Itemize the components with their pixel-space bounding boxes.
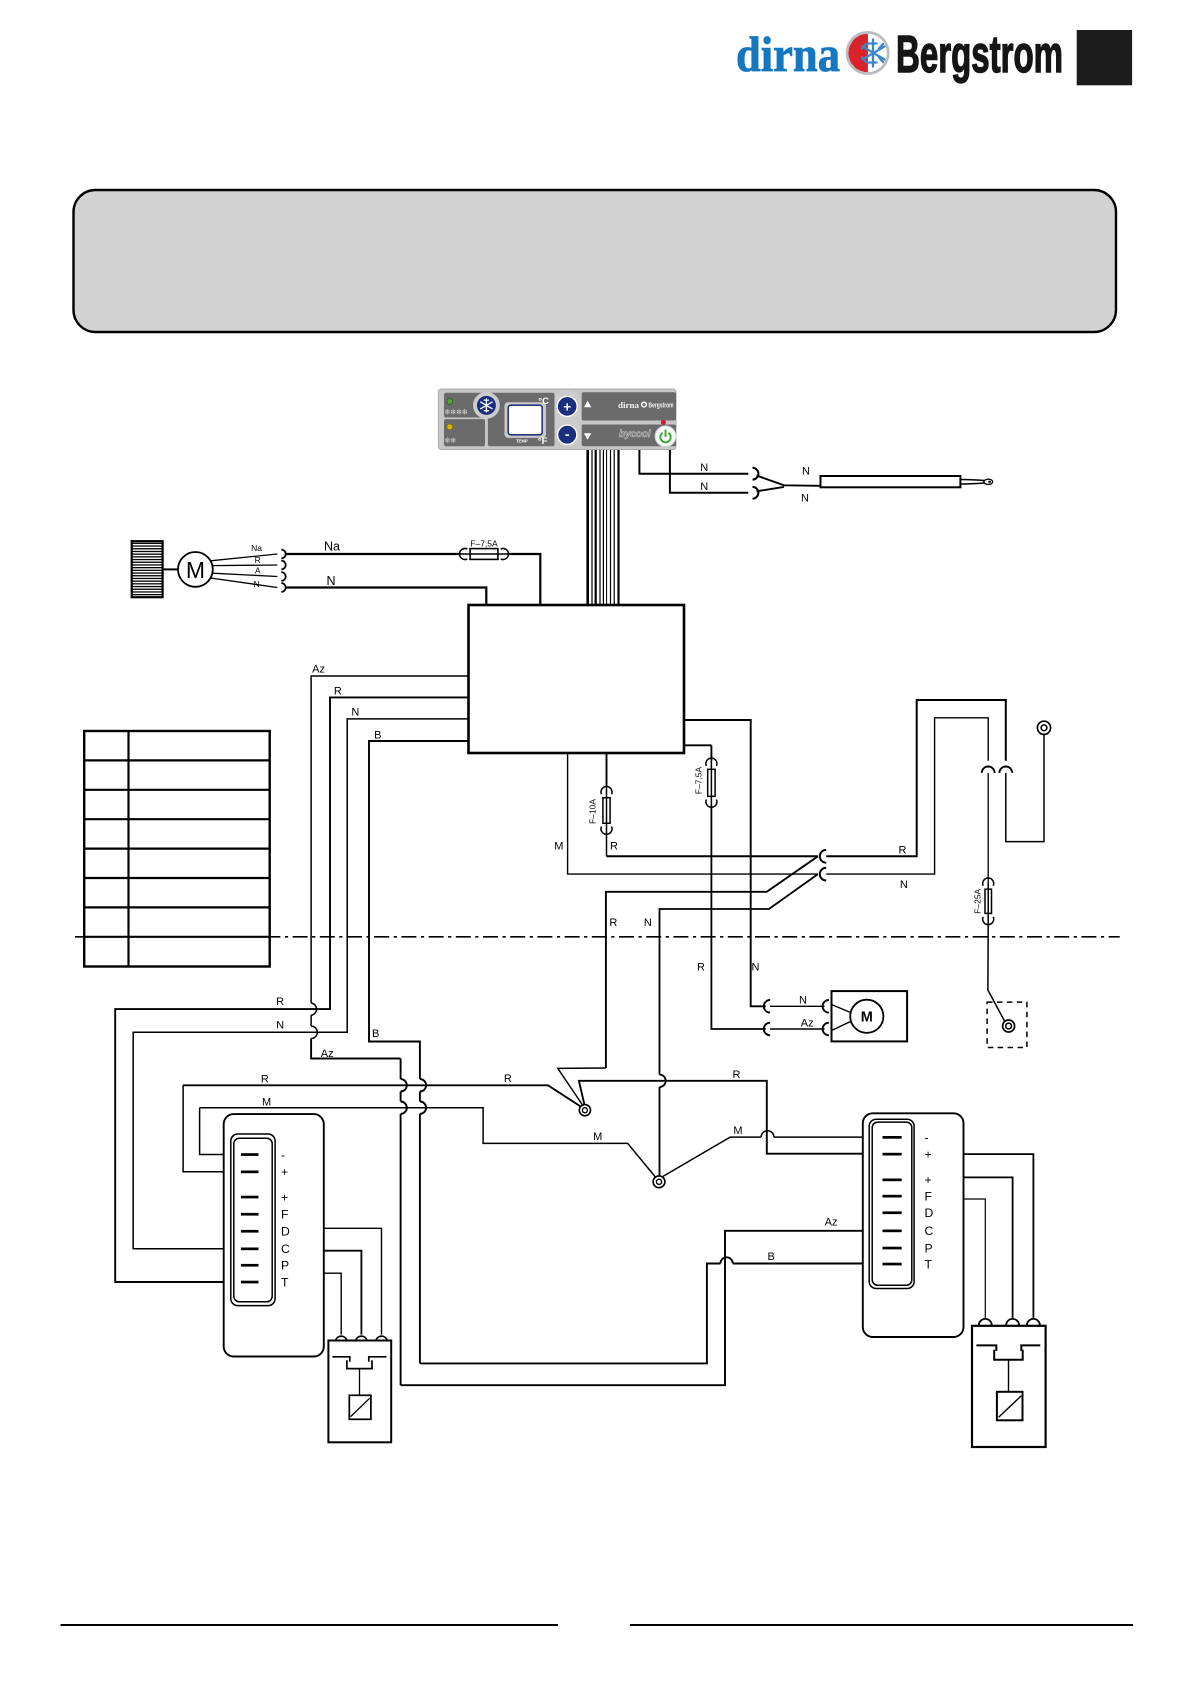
svg-text:B: B [374, 729, 381, 741]
svg-text:+: + [281, 1190, 288, 1204]
svg-text:°C: °C [538, 396, 549, 407]
svg-text:P: P [925, 1241, 933, 1255]
condenser fan motor box [832, 991, 908, 1041]
svg-text:C: C [925, 1224, 934, 1238]
wire N to condenser motor [770, 1005, 825, 1007]
svg-text:N: N [802, 465, 810, 477]
ring terminal (battery +) [1037, 721, 1050, 734]
svg-text:N: N [801, 493, 809, 505]
svg-text:Az: Az [321, 1048, 334, 1060]
svg-text:D: D [925, 1206, 934, 1220]
svg-text:M: M [733, 1125, 742, 1137]
wire Na [286, 553, 459, 555]
svg-text:+: + [563, 398, 571, 414]
wire Az vertical with hops [401, 1059, 407, 1386]
up triangle [584, 401, 591, 408]
svg-text:M: M [186, 557, 205, 583]
svg-text:Bergstrom: Bergstrom [896, 26, 1063, 84]
red LED [661, 420, 666, 425]
svg-text:N: N [752, 962, 760, 974]
display [505, 402, 547, 438]
wire M from control unit bottom [568, 753, 818, 874]
svg-text:N: N [700, 462, 708, 474]
wire N to probe (lower) [670, 450, 748, 493]
svg-text:N: N [326, 574, 335, 588]
green LED [447, 399, 453, 405]
condenser fan motor M2 [850, 1000, 883, 1033]
relay connector arcs right [979, 1319, 992, 1326]
relay K2 (condenser) [972, 1326, 1046, 1447]
svg-text:F–25A: F–25A [972, 888, 982, 913]
svg-text:C: C [281, 1242, 290, 1256]
wire N from control unit (left) [133, 719, 468, 1249]
motor connector arcs [281, 550, 285, 559]
snow button [473, 392, 500, 419]
svg-text:R: R [899, 845, 907, 857]
chassis ring terminal [1003, 1020, 1015, 1032]
connector arc N roof [982, 767, 995, 773]
wire R control unit bottom to fuse [606, 753, 608, 786]
svg-text:R: R [261, 1073, 269, 1085]
connector arc N fan2 [823, 1000, 829, 1013]
svg-text:F–7,5A: F–7,5A [470, 539, 498, 549]
down triangle [584, 433, 591, 440]
svg-text:dirna: dirna [618, 400, 640, 410]
left block pins [241, 1153, 259, 1283]
fuse F-7,5A (condenser) [706, 758, 717, 807]
svg-text:R: R [733, 1069, 741, 1081]
svg-text:P: P [281, 1259, 289, 1273]
wire M down to cab pin1 [200, 1108, 256, 1155]
right block exit wires to relay [964, 1154, 1034, 1319]
fan / evaporator blower [132, 541, 163, 597]
left block pin labels [281, 1148, 290, 1290]
svg-text:N: N [351, 707, 359, 719]
wire Na to control unit [509, 554, 540, 605]
hop N over R horizontal [660, 1075, 666, 1176]
fuse F-10A [601, 786, 612, 856]
fuse F-7,5A (Na line) [459, 549, 509, 560]
wire N to probe (upper) [639, 450, 748, 474]
svg-text:T: T [925, 1257, 933, 1271]
svg-text:R: R [255, 555, 261, 565]
plus minus pill [555, 391, 581, 447]
svg-text:+: + [925, 1173, 932, 1187]
svg-text:F–7,5A: F–7,5A [693, 766, 703, 794]
hop Az over R [311, 1003, 316, 1015]
grey rounded title box [74, 190, 1117, 332]
svg-text:Az: Az [825, 1217, 838, 1229]
svg-text:N: N [276, 1020, 284, 1032]
yellow LED [447, 424, 453, 430]
svg-text:M: M [593, 1131, 602, 1143]
wire R control unit right to fuse F-7,5A [684, 744, 711, 746]
svg-text:R: R [609, 917, 617, 929]
svg-text:B: B [372, 1028, 379, 1040]
svg-text:bycool: bycool [619, 429, 651, 440]
wire fuse to chassis ring [988, 923, 1005, 1021]
condenser motor leads [832, 1005, 851, 1031]
svg-text:❄❄❄❄: ❄❄❄❄ [444, 407, 467, 416]
motor link [163, 568, 178, 570]
svg-text:-: - [565, 426, 570, 442]
small snowflakes row1 [444, 407, 467, 416]
cab harness connector block (left) [224, 1114, 324, 1356]
svg-text:N: N [799, 995, 807, 1007]
footer rule right [630, 1624, 1133, 1626]
connector pair evap: M arc [820, 868, 826, 881]
right block pins [883, 1136, 902, 1265]
wire bundle from panel to control unit [588, 450, 619, 605]
svg-text:M: M [861, 1009, 873, 1025]
ring2 [653, 1176, 665, 1188]
wire R ring to right block [579, 1081, 898, 1154]
wire R fuse to connector [607, 855, 818, 857]
wire B vertical hops [420, 1079, 426, 1363]
connector arc R roof [999, 767, 1012, 773]
svg-text:R: R [276, 996, 284, 1008]
wire N to fuse F-25A [987, 773, 989, 882]
svg-text:°F: °F [538, 436, 548, 447]
small snowflakes row2 [444, 436, 456, 445]
svg-text:M: M [262, 1097, 271, 1109]
probe leads [757, 476, 821, 486]
svg-text:F–10A: F–10A [588, 799, 598, 824]
svg-text:N: N [900, 879, 908, 891]
connector arc Az fan2 [823, 1023, 829, 1036]
control panel [438, 389, 676, 450]
wire Az to condenser motor [770, 1028, 825, 1030]
wire R down to cab pin2 [183, 1085, 256, 1172]
wire to ring terminal top right [1006, 735, 1044, 842]
wire Az from control unit (left) [311, 676, 468, 1003]
svg-text:F: F [281, 1208, 288, 1222]
control unit box [469, 605, 685, 753]
wire N control unit right side [684, 720, 766, 1006]
svg-text:N: N [700, 481, 708, 493]
svg-text:N: N [254, 579, 260, 589]
R return diagonal [606, 856, 818, 1068]
temperature probe body [821, 476, 961, 487]
motor lead labels [251, 543, 262, 589]
svg-text:+: + [281, 1165, 288, 1179]
svg-text:R: R [610, 841, 618, 853]
connector arc N fan1 [764, 1000, 770, 1013]
svg-text:F: F [925, 1189, 932, 1203]
connector pair evap: R arc [820, 850, 826, 863]
svg-text:T: T [281, 1275, 289, 1289]
svg-text:Bergstrom: Bergstrom [649, 402, 674, 409]
footer rule left [61, 1624, 559, 1626]
blower motor M1 [178, 552, 213, 587]
ring1 [579, 1105, 590, 1116]
fuse F-25A [983, 878, 994, 925]
power button [655, 426, 676, 447]
wire B bottom run to cab connector [420, 1264, 721, 1364]
svg-text:R: R [334, 685, 342, 697]
svg-text:M: M [554, 841, 563, 853]
legend table [84, 731, 270, 967]
wire R roof loop (thick outer) [826, 700, 1006, 856]
wire R from control unit (left) [115, 697, 468, 1282]
svg-text:❄❄: ❄❄ [444, 436, 456, 445]
black square top right [1077, 30, 1132, 85]
svg-text:A: A [255, 566, 261, 576]
svg-text:B: B [768, 1251, 775, 1263]
connector arc Az fan1 [764, 1023, 770, 1036]
connector arc probe upper [753, 468, 759, 480]
svg-text:TEMP: TEMP [516, 439, 528, 444]
svg-text:-: - [925, 1131, 929, 1145]
wire B from control unit (left) [369, 741, 469, 1079]
M return diagonal [660, 874, 818, 1075]
svg-text:R: R [504, 1073, 512, 1085]
motor leads [211, 554, 278, 561]
wire N motor to control unit [286, 588, 487, 606]
roof harness connector block (right) [863, 1113, 964, 1337]
connector arc probe lower [753, 487, 759, 499]
wire N roof loop (inner) [826, 718, 988, 874]
wire M ring2 to right block with hop [663, 1131, 898, 1177]
svg-text:+: + [925, 1147, 932, 1161]
wire R zigzag from fuse vertical [558, 1068, 606, 1106]
svg-text:D: D [281, 1225, 290, 1239]
svg-text:Az: Az [801, 1018, 814, 1030]
hop Az over N [311, 1015, 317, 1038]
wire M from cab connector [200, 1108, 656, 1177]
svg-text:Na: Na [251, 543, 262, 553]
probe tip [960, 480, 984, 485]
svg-text:Na: Na [324, 540, 340, 554]
relay connector arcs left [336, 1336, 347, 1340]
wire R fuse down to Az connector [711, 806, 765, 1030]
relay K1 (evaporator) [328, 1341, 391, 1443]
right block pin labels [925, 1131, 934, 1272]
wire R from cab connector to ring [183, 1085, 582, 1107]
hop B over Az riser [720, 1257, 898, 1263]
svg-text:dirna: dirna [736, 26, 840, 82]
svg-text:Az: Az [312, 664, 325, 676]
svg-text:R: R [697, 962, 705, 974]
svg-text:-: - [281, 1148, 285, 1162]
dash-dot reference line [75, 936, 1120, 938]
left block exit wires to relay [324, 1228, 382, 1334]
logo emblem circle [845, 31, 889, 75]
wire Az bottom run to cab connector [401, 1231, 898, 1385]
dashed box chassis [987, 1002, 1027, 1047]
svg-text:N: N [644, 917, 652, 929]
